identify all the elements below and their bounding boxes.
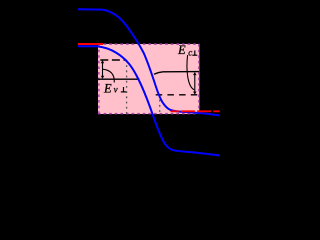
dashed level left (Ev edge) [100, 59, 126, 61]
Fermi level left (red) [78, 43, 103, 45]
conduction band Ec (blue curve) [78, 9, 220, 115]
energy level solid line right (Ec of right side) [154, 72, 199, 75]
svg-text:v: v [114, 84, 118, 94]
barrier border bottom (dotted purple) [98, 113, 199, 115]
barrier border right (dotted purple) [198, 44, 200, 114]
band diagram canvas [0, 0, 245, 195]
barrier border left (dotted purple) [98, 44, 100, 114]
leader arc from Ev label to left arrow [103, 69, 115, 82]
svg-text:c: c [188, 48, 192, 58]
energy level solid line left (Ev of left side) [98, 78, 140, 80]
barrier region (pink rectangle) [98, 44, 199, 114]
turning point dotted line 1 [126, 60, 128, 114]
svg-text:E: E [103, 81, 112, 95]
valence band Ev (blue curve) [78, 46, 220, 155]
label Ev_perp [103, 81, 126, 95]
label Ec_perp [177, 43, 197, 58]
double arrow right [193, 72, 196, 95]
dashed level right (Ec edge) [156, 94, 199, 96]
svg-text:E: E [177, 43, 186, 57]
leader arc from Ec label to right arrow [187, 55, 194, 90]
double arrow left [101, 60, 104, 79]
barrier border top (dotted purple) [98, 43, 199, 45]
turning point dotted line 2 [159, 95, 161, 114]
Fermi level right (red dashed) [171, 110, 220, 112]
